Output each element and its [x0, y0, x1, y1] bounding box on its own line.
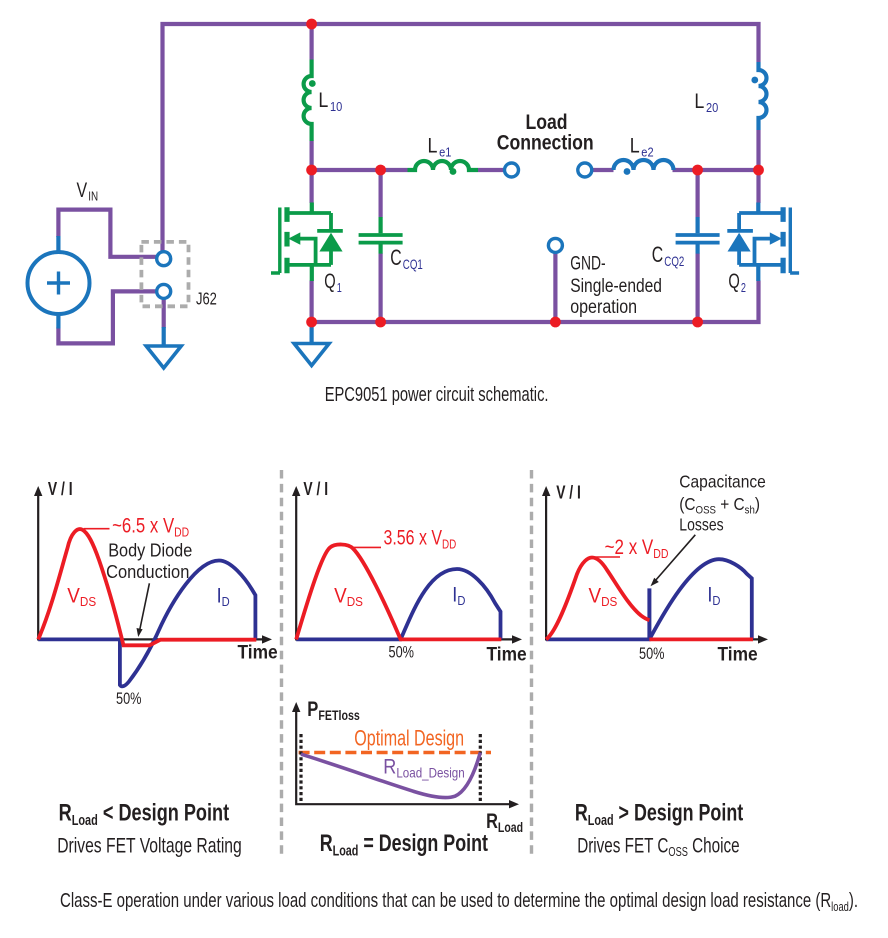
svg-text:J62: J62: [196, 290, 217, 310]
svg-text:RLoad_Design: RLoad_Design: [383, 755, 464, 780]
svg-text:L20: L20: [694, 90, 718, 116]
svg-text:Losses: Losses: [679, 516, 723, 535]
svg-text:RLoad > Design Point: RLoad > Design Point: [575, 800, 743, 828]
svg-text:Le1: Le1: [428, 134, 452, 160]
svg-text:~2 x VDD: ~2 x VDD: [605, 536, 669, 561]
svg-text:Single-ended: Single-ended: [570, 275, 662, 297]
svg-text:V / I: V / I: [48, 479, 73, 499]
svg-text:Drives FET COSS Choice: Drives FET COSS Choice: [577, 833, 739, 860]
svg-text:VDS: VDS: [67, 585, 96, 610]
svg-text:ID: ID: [452, 583, 465, 608]
svg-text:ID: ID: [217, 584, 230, 609]
svg-text:Time: Time: [487, 643, 527, 665]
svg-text:Le2: Le2: [630, 134, 654, 160]
svg-text:Drives FET Voltage Rating: Drives FET Voltage Rating: [57, 833, 242, 857]
svg-text:~6.5 x VDD: ~6.5 x VDD: [112, 515, 189, 540]
svg-text:operation: operation: [570, 296, 637, 318]
svg-text:Time: Time: [238, 641, 278, 663]
svg-text:EPC9051 power circuit schemati: EPC9051 power circuit schematic.: [325, 383, 549, 406]
svg-text:Time: Time: [718, 643, 758, 665]
svg-text:(COSS + Csh): (COSS + Csh): [679, 495, 760, 517]
svg-text:3.56 x VDD: 3.56 x VDD: [384, 525, 457, 552]
svg-text:PFETloss: PFETloss: [307, 698, 360, 723]
svg-text:RLoad: RLoad: [486, 809, 523, 835]
svg-text:RLoad = Design Point: RLoad = Design Point: [320, 831, 488, 859]
svg-text:Class-E operation under variou: Class-E operation under various load con…: [60, 889, 858, 914]
svg-text:VDS: VDS: [589, 585, 618, 610]
svg-text:Q2: Q2: [728, 269, 746, 295]
svg-text:50%: 50%: [639, 644, 665, 663]
svg-text:V / I: V / I: [556, 483, 581, 503]
svg-text:Optimal Design: Optimal Design: [354, 727, 464, 751]
svg-text:Connection: Connection: [497, 131, 594, 155]
svg-text:RLoad < Design Point: RLoad < Design Point: [59, 799, 230, 828]
svg-text:CCQ1: CCQ1: [390, 247, 422, 273]
svg-text:Body Diode: Body Diode: [108, 539, 192, 560]
svg-text:V / I: V / I: [303, 479, 328, 499]
svg-text:VDS: VDS: [334, 585, 363, 610]
svg-text:ID: ID: [707, 583, 720, 608]
svg-text:L10: L10: [318, 89, 342, 115]
svg-text:VIN: VIN: [77, 178, 99, 204]
svg-text:Capacitance: Capacitance: [679, 472, 765, 492]
svg-text:50%: 50%: [389, 643, 415, 662]
svg-text:GND-: GND-: [570, 252, 605, 274]
svg-text:CCQ2: CCQ2: [652, 244, 684, 270]
svg-text:Q1: Q1: [324, 269, 342, 295]
svg-text:Conduction: Conduction: [106, 561, 189, 582]
svg-text:50%: 50%: [116, 689, 142, 708]
